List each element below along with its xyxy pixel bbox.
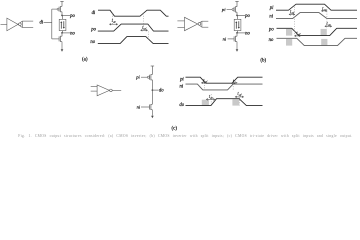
svg-text:pi: pi <box>221 7 226 12</box>
svg-text:no: no <box>269 38 274 43</box>
svg-text:po: po <box>90 28 96 33</box>
svg-text:po: po <box>268 28 274 33</box>
svg-text:no: no <box>90 40 95 45</box>
svg-text:(a): (a) <box>82 58 88 63</box>
svg-text:(c): (c) <box>172 126 178 131</box>
svg-text:Fig. 1. CMOS output structur: Fig. 1. CMOS output structures considere… <box>18 134 352 138</box>
svg-text:pi: pi <box>269 6 274 11</box>
svg-text:pi: pi <box>135 75 140 80</box>
svg-text:no: no <box>70 32 75 37</box>
svg-text:do: do <box>179 103 184 108</box>
svg-text:no: no <box>245 32 250 37</box>
svg-text:tdr: tdr <box>112 19 117 24</box>
svg-text:(b): (b) <box>260 58 266 63</box>
svg-text:do: do <box>159 89 164 94</box>
svg-text:pi: pi <box>179 77 184 82</box>
svg-text:po: po <box>69 14 75 19</box>
svg-text:po: po <box>244 14 250 19</box>
